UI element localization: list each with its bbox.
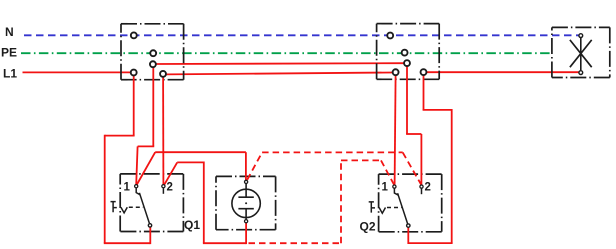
wire left loop horizontal xyxy=(105,135,135,137)
svg-text:PE: PE xyxy=(1,46,17,60)
wire drop to Q1 terminal 1 xyxy=(136,146,137,184)
wire L1 (red phase line to junction box 1) xyxy=(23,71,132,73)
wire riser to Q1 common xyxy=(149,227,151,244)
wire right return vertical xyxy=(451,109,453,243)
wire horizontal to glow lamp top xyxy=(155,151,246,153)
wire box2 right circle drop xyxy=(423,75,425,110)
wire correspondent upper between junction boxes xyxy=(156,62,404,65)
svg-text:2: 2 xyxy=(425,182,431,194)
wire bottom left to Q1 common xyxy=(104,242,151,244)
wire diagonal Q1 terminal 2 to glow lamp bottom line xyxy=(164,162,177,184)
wire dashed glow lamp bottom run xyxy=(249,242,342,244)
terminal box2 PE xyxy=(402,50,408,56)
terminal box2 correspondent upper xyxy=(404,60,410,66)
wire dashed lower correspondent to Q2 xyxy=(341,159,381,161)
terminal box2 correspondent lower xyxy=(393,69,399,75)
glow lamp H1 xyxy=(232,180,260,223)
wire dashed upper correspondent to Q2 xyxy=(262,151,403,153)
Q1 contact 1 tick xyxy=(136,188,140,195)
terminal glow lamp top xyxy=(245,180,248,183)
Q1 manual actuator T xyxy=(111,202,117,213)
terminal box1 correspondent upper xyxy=(150,61,156,67)
terminal Q2 1 xyxy=(393,185,396,188)
wire box2 bPE drop xyxy=(406,66,408,134)
terminal Q2 2 xyxy=(420,185,423,188)
wire box1 right circle drop to Q1 terminal 2 xyxy=(162,77,164,185)
glow lamp centre dot xyxy=(245,202,247,204)
svg-text:L1: L1 xyxy=(3,67,17,81)
wire box2 left circle drop to Q2 terminal 1 xyxy=(395,75,396,185)
glow lamp box xyxy=(216,176,276,229)
switch Q1 xyxy=(111,182,201,233)
wire drop to Q2 terminal 2 xyxy=(420,134,422,185)
wire dashed diagonal into Q2 terminal 1 xyxy=(381,160,394,185)
wire vertical left of glow lamp xyxy=(203,162,205,244)
wire dashed diagonal into Q2 terminal 2 xyxy=(403,152,422,184)
wire to right return xyxy=(423,109,452,111)
junction box 1 xyxy=(121,24,184,80)
wire L1 drop from box1 xyxy=(133,75,135,136)
wire left loop vertical xyxy=(104,135,106,244)
wire jog above Q1 terminal 1 xyxy=(138,145,155,147)
terminal lamp N xyxy=(579,34,583,38)
Q2 lever xyxy=(398,193,408,224)
terminal box1 correspondent lower xyxy=(160,71,166,77)
wire diagonal Q1 terminal 1 to glow lamp line xyxy=(137,152,156,185)
svg-text:2: 2 xyxy=(167,182,173,194)
wire bottom right to Q2 common xyxy=(408,242,452,244)
terminal Q1 1 xyxy=(135,185,138,188)
Q1 linkage dashes xyxy=(129,206,143,208)
wire switched live from junction box 2 to lamp outlet xyxy=(427,71,579,73)
svg-text:1: 1 xyxy=(382,182,389,194)
Q1 contact 2 stub xyxy=(162,188,164,194)
Q2 linkage dashes xyxy=(387,207,401,209)
svg-text:N: N xyxy=(5,25,14,39)
terminal box1 PE xyxy=(150,50,156,56)
terminal glow lamp bottom xyxy=(245,220,248,223)
Q2 contact 1 tick xyxy=(394,189,398,196)
svg-text:Q1: Q1 xyxy=(184,218,200,232)
glow lamp bottom electrode xyxy=(238,209,253,220)
wire PE (green dash-dot protective earth line) xyxy=(21,52,550,54)
lamp outlet box xyxy=(552,27,610,77)
switch Q1 box xyxy=(120,174,183,232)
wire riser to Q2 common xyxy=(407,227,409,244)
wire bottom to glow lamp bottom xyxy=(203,242,246,244)
terminal box1 L1 xyxy=(131,70,137,76)
wire drop to glow lamp top terminal xyxy=(245,152,247,180)
terminal box1 N xyxy=(131,32,137,38)
glow lamp bulb xyxy=(232,189,260,217)
Q2 common terminal xyxy=(407,224,410,227)
wire horizontal glow lamp bottom line xyxy=(177,161,204,163)
svg-text:1: 1 xyxy=(124,182,131,194)
lamp outlet E1 xyxy=(570,34,592,75)
svg-text:Q2: Q2 xyxy=(360,219,376,233)
terminal box2 N xyxy=(387,33,393,39)
Q1 common terminal xyxy=(148,224,151,227)
switch Q2 xyxy=(360,182,431,234)
wire dashed glow lamp top diagonal xyxy=(247,152,262,179)
lamp cross xyxy=(570,40,592,67)
lamp stem xyxy=(580,38,582,70)
wire box1 bPE drop xyxy=(152,67,154,146)
wire N (blue dashed neutral line) xyxy=(24,34,579,36)
Q1 lever xyxy=(139,193,149,224)
terminal lamp live xyxy=(579,71,583,75)
wire correspondent lower between junction boxes xyxy=(166,73,392,75)
Q1 spring xyxy=(121,207,127,213)
terminal Q1 2 xyxy=(162,185,165,188)
switch Q2 box xyxy=(379,174,442,232)
junction box 2 xyxy=(377,24,440,80)
Q2 manual actuator T xyxy=(369,202,375,213)
wire jog above Q2 terminal 2 xyxy=(406,133,421,135)
glow lamp top electrode xyxy=(238,184,253,198)
wire dashed vertical riser xyxy=(340,160,342,243)
Q2 spring xyxy=(379,208,385,214)
Q2 contact 2 stub xyxy=(421,189,423,195)
wire glow lamp bottom terminal drop xyxy=(245,223,247,244)
terminal box2 switched live xyxy=(421,69,427,75)
